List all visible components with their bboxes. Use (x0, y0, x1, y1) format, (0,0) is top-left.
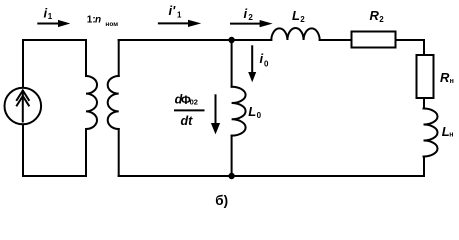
svg-text:i': i' (169, 3, 177, 18)
svg-text:1: 1 (177, 10, 182, 19)
svg-text:н: н (449, 132, 453, 139)
svg-text:ном: ном (105, 21, 118, 28)
svg-text:n: n (95, 15, 101, 26)
svg-text:2: 2 (300, 15, 305, 24)
svg-text:L: L (292, 8, 300, 23)
svg-text:02: 02 (190, 98, 198, 107)
svg-text:R: R (440, 70, 450, 85)
svg-text:н: н (450, 78, 454, 85)
svg-text:i: i (260, 51, 264, 66)
svg-text:L: L (248, 104, 256, 119)
svg-text:б): б) (215, 193, 228, 208)
svg-text:dt: dt (181, 114, 194, 128)
svg-text:i: i (244, 6, 248, 21)
svg-text:0: 0 (264, 60, 269, 69)
svg-text:0: 0 (257, 111, 262, 120)
svg-text:1: 1 (48, 12, 53, 21)
svg-text:2: 2 (248, 13, 253, 22)
svg-text:2: 2 (379, 15, 384, 24)
svg-text:R: R (370, 8, 380, 23)
